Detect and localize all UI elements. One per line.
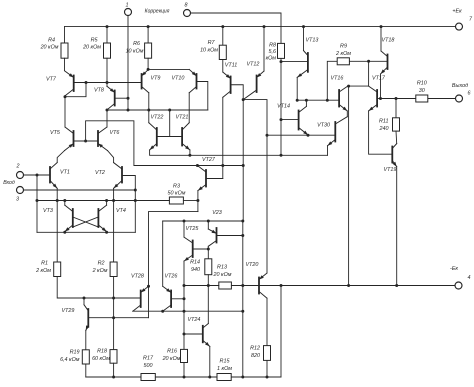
wire VT3-VT4 cross coupling b xyxy=(73,217,99,227)
junction mirror base tap xyxy=(168,109,171,112)
resistor R19 6.4k xyxy=(60,350,89,365)
wire VT25 emitter chain xyxy=(183,261,185,349)
transistor VT3 xyxy=(43,205,73,231)
wire VT10 collector down xyxy=(188,93,190,123)
svg-text:2 кОм: 2 кОм xyxy=(335,51,351,57)
wire VT2 base link xyxy=(122,176,135,233)
svg-text:VT13: VT13 xyxy=(306,38,319,44)
wire VT8 base to compensation xyxy=(115,97,128,99)
junction VT14 collector on VT16 base line xyxy=(305,99,308,102)
terminal 7 (+Eк supply) xyxy=(452,9,473,31)
wire R13 line / -Eк rail xyxy=(184,285,219,287)
svg-text:VT20: VT20 xyxy=(246,262,259,268)
wire VT12 collector branch down xyxy=(242,100,244,221)
wire R9 leads xyxy=(327,61,337,100)
wire pulldown to -Eк xyxy=(348,86,350,285)
svg-text:2: 2 xyxy=(16,164,20,170)
transistor VT16 xyxy=(331,76,348,111)
transistor VT14 xyxy=(277,104,308,135)
svg-text:1 кОм: 1 кОм xyxy=(217,366,232,372)
svg-text:VT2: VT2 xyxy=(95,170,105,176)
terminal 4 (-Eк supply) xyxy=(450,266,470,289)
transistor VT24 xyxy=(188,317,210,346)
svg-text:R12: R12 xyxy=(250,346,260,352)
wire bottom rail xyxy=(86,376,141,378)
junction terminal1 line end xyxy=(127,109,130,112)
svg-text:10 кОм: 10 кОм xyxy=(200,48,218,54)
junction VT20 base / rail corner xyxy=(280,284,283,287)
svg-text:VT30: VT30 xyxy=(317,123,330,129)
wire VT29 collector up xyxy=(83,298,85,305)
transistor VT7 (pnp, diode-connected) xyxy=(46,71,74,96)
svg-text:VT18: VT18 xyxy=(382,38,395,44)
junction VT3 collector xyxy=(63,199,66,202)
junction R14 top node xyxy=(207,248,210,251)
wire +Eк rail xyxy=(65,26,456,28)
wire terminal1 to compensation node xyxy=(127,16,129,111)
junction VT27 collector xyxy=(196,164,199,167)
resistor R1 2k xyxy=(35,261,61,277)
wire VT7 base-collector tie xyxy=(65,83,86,97)
wire R19 to bottom rail xyxy=(85,364,87,377)
svg-text:VT19: VT19 xyxy=(384,167,397,173)
wire input2 branch to quad xyxy=(36,175,38,232)
svg-text:R9: R9 xyxy=(340,44,347,50)
junction VT18 collector on rail xyxy=(380,25,383,28)
resistor R14 940 xyxy=(190,259,212,275)
wire VT11 collector down to VT27 base xyxy=(222,97,224,178)
svg-text:5,6: 5,6 xyxy=(269,49,277,55)
wire V23 bias line xyxy=(163,220,243,222)
svg-text:240: 240 xyxy=(379,126,389,132)
svg-text:R7: R7 xyxy=(208,40,216,46)
transistor VT19 xyxy=(384,144,397,173)
terminal 1 (Коррекция / correction pin) xyxy=(125,3,170,16)
wire R11 to VT19 collector xyxy=(395,131,398,144)
junction VT13 base on R8 line xyxy=(280,60,283,63)
wire VT16 base line xyxy=(297,99,339,101)
svg-text:940: 940 xyxy=(191,267,200,273)
wire VT18 emitter to output line xyxy=(380,74,382,99)
resistor R9 2k xyxy=(335,44,351,65)
wire R16 to rail xyxy=(183,363,185,378)
svg-text:R16: R16 xyxy=(167,349,177,355)
junction VT1 emitter / quad frame xyxy=(56,199,59,202)
svg-text:-Eк: -Eк xyxy=(450,266,458,272)
junction VT4 emitter xyxy=(105,231,108,234)
junction VT6 collector / compensation line xyxy=(106,109,109,112)
svg-text:3: 3 xyxy=(16,197,19,203)
svg-text:R13: R13 xyxy=(217,265,227,271)
junction VT9 collector / compensation xyxy=(147,109,150,112)
junction quad frame right xyxy=(134,199,137,202)
wire VT13 base to R8 node xyxy=(281,61,308,63)
wire VT30 base line xyxy=(267,134,335,136)
svg-text:VT14: VT14 xyxy=(277,104,290,110)
svg-text:R3: R3 xyxy=(173,184,180,190)
svg-text:VT4: VT4 xyxy=(116,208,126,214)
resistor R6 10k xyxy=(126,25,152,69)
junction VT4 collector xyxy=(105,199,108,202)
transistor VT27 xyxy=(197,157,216,191)
wire quad collector line to R3 to VT27 emitter xyxy=(37,200,169,202)
junction R6 feed xyxy=(147,68,150,71)
wire R14 to R13 line xyxy=(207,275,209,286)
svg-text:R4: R4 xyxy=(48,38,55,44)
wire VT7/VT9 base line xyxy=(74,82,142,84)
junction VT14 base on R8 line xyxy=(280,118,283,121)
wire VT17 base to output xyxy=(377,98,380,100)
junction V23 emitter xyxy=(207,220,210,223)
svg-text:30: 30 xyxy=(419,88,425,94)
wire VT21/VT22 base link xyxy=(157,136,182,138)
svg-text:60 кОм: 60 кОм xyxy=(92,356,110,362)
junction VT13 emitter on VT16 base line xyxy=(296,99,299,102)
svg-text:2 кОм: 2 кОм xyxy=(35,268,51,274)
wire VT26 emitter feed xyxy=(162,221,164,286)
transistor VT11 (pnp) xyxy=(223,63,237,98)
wire VT27 emitter to VT28 xyxy=(149,212,198,318)
junction input2 branch xyxy=(36,174,39,177)
junction R16 on rail xyxy=(183,376,186,379)
wire VT4 collector stub xyxy=(106,201,108,206)
junction VT24 emitter on rail xyxy=(208,376,211,379)
transistor VT8 (pnp) xyxy=(94,86,115,110)
junction VT5-VT6 base xyxy=(84,140,87,143)
terminal 6 (Выход / output) xyxy=(452,83,471,102)
wire VT5 collector up xyxy=(64,97,66,127)
svg-text:10 кОм: 10 кОм xyxy=(126,49,144,55)
transistor VT10 (pnp) xyxy=(172,69,197,92)
svg-text:кОм: кОм xyxy=(266,56,277,62)
transistor VT21 xyxy=(176,115,190,150)
wire VT19 emitter to -Eк rail xyxy=(396,167,398,286)
junction V23 base tee xyxy=(241,234,244,237)
junction VT26 collector xyxy=(161,310,164,313)
svg-text:VT25: VT25 xyxy=(186,226,200,232)
transistor VT25 xyxy=(184,226,199,261)
wire VT6 collector up xyxy=(106,110,108,127)
svg-text:VT3: VT3 xyxy=(43,208,53,214)
wire VT24 collector chain xyxy=(207,286,209,324)
resistor R17 500 xyxy=(141,356,155,381)
junction VT19 emitter on rail xyxy=(395,284,398,287)
wire VT9/VT10 emitter top line xyxy=(149,68,190,70)
junction VT18 emitter on output xyxy=(379,97,382,100)
wire V23 base tie xyxy=(217,221,243,236)
wire VT24 base tie xyxy=(184,333,203,335)
svg-text:VT22: VT22 xyxy=(151,115,164,121)
wire rail to VT12 emitter xyxy=(263,27,265,72)
junction V23 column / collector line xyxy=(241,310,244,313)
svg-text:R10: R10 xyxy=(417,81,427,87)
wire VT2 emitter down to R2 xyxy=(113,188,115,262)
wire VT29 base line xyxy=(88,317,148,319)
wire VT25 collector up xyxy=(183,221,185,237)
svg-text:R18: R18 xyxy=(97,349,107,355)
transistor V23 (pnp diode-connected) xyxy=(208,210,221,246)
wire R11 top lead xyxy=(395,99,397,118)
terminal 8 (correction pin 8) xyxy=(184,3,191,17)
resistor R3 50k xyxy=(168,184,186,205)
resistor R16 20k xyxy=(162,349,188,363)
svg-text:VT16: VT16 xyxy=(331,76,344,82)
svg-text:Вход: Вход xyxy=(3,180,15,186)
wire input3 to VT2 base node xyxy=(24,189,136,191)
resistor R13 20k xyxy=(213,265,232,290)
wire VT28/VT26 collector line xyxy=(133,310,243,312)
wire VT16 emitter to VT30 collector xyxy=(346,111,348,117)
svg-text:R15: R15 xyxy=(220,359,231,365)
svg-text:R2: R2 xyxy=(98,261,105,267)
wire base tap to second-stage node xyxy=(86,121,244,166)
svg-text:VT12: VT12 xyxy=(247,62,260,68)
transistor VT17 xyxy=(369,76,386,111)
wire V23 base column to bottom rail xyxy=(242,236,244,378)
svg-text:VT28: VT28 xyxy=(131,274,144,280)
transistor VT12 (pnp) xyxy=(243,62,264,100)
svg-text:VT27: VT27 xyxy=(202,157,216,163)
junction R11 top on output xyxy=(395,97,398,100)
wire input2 to VT1 base xyxy=(24,174,51,176)
junction R8 column on emitter line xyxy=(280,154,283,157)
svg-text:R11: R11 xyxy=(379,119,389,125)
wire R1 bottom to base line xyxy=(57,277,141,299)
wire VT27 emitter down xyxy=(197,191,199,212)
junction VT12 collector node xyxy=(242,98,245,101)
junction V23 line corner xyxy=(241,220,244,223)
svg-text:4: 4 xyxy=(468,275,471,281)
svg-text:V23: V23 xyxy=(212,210,222,216)
wire VT8 collector stub xyxy=(106,109,108,111)
resistor R18 60k xyxy=(92,349,117,364)
wire R18 to bottom rail xyxy=(113,363,115,377)
svg-text:VT6: VT6 xyxy=(110,130,120,136)
svg-text:500: 500 xyxy=(144,363,153,369)
wire compensation node line xyxy=(107,109,208,111)
wire VT13 emitter down xyxy=(296,77,298,100)
junction VT2 emitter / quad frame xyxy=(112,199,115,202)
wire VT24 emitter to rail xyxy=(209,346,211,377)
junction R14 bottom xyxy=(207,284,210,287)
transistor VT5 (pnp) xyxy=(50,127,73,151)
wire quad bottom line xyxy=(37,231,135,233)
wire VT5 emitter to VT1 collector xyxy=(57,151,64,163)
resistor R11 240 xyxy=(379,118,400,132)
svg-text:R1: R1 xyxy=(41,261,48,267)
svg-text:VT5: VT5 xyxy=(50,130,61,136)
wire VT13 collector to rail xyxy=(303,27,305,51)
wire VT7 collector junction xyxy=(64,95,67,98)
wire VT16/VT17 collector link xyxy=(348,85,369,87)
junction collector line end xyxy=(183,310,186,313)
wire V23 collector to R14 xyxy=(207,246,209,258)
junction quad frame left xyxy=(36,199,39,202)
svg-text:8: 8 xyxy=(185,3,188,9)
junction VT25 emitter / R13 line xyxy=(183,284,186,287)
svg-text:VT10: VT10 xyxy=(172,76,185,82)
svg-text:R17: R17 xyxy=(143,356,154,362)
svg-text:20 кОм: 20 кОм xyxy=(82,45,101,51)
junction VT14 emitter on VT30 base line xyxy=(307,134,310,137)
transistor VT22 xyxy=(149,115,164,150)
svg-text:VT24: VT24 xyxy=(188,317,201,323)
wire output line xyxy=(381,98,416,100)
junction VT25 emitter / VT24 base xyxy=(183,333,186,336)
resistor R15 1k xyxy=(217,359,232,381)
transistor VT30 xyxy=(317,117,347,146)
junction VT25 collector on V23 line xyxy=(183,220,186,223)
svg-text:20 кОм: 20 кОм xyxy=(213,272,232,278)
wire VT26 base tie xyxy=(171,298,184,300)
wire VT1 emitter down to R1 xyxy=(56,188,58,262)
wire VT20 base to -Eк xyxy=(259,285,281,287)
svg-text:50 кОм: 50 кОм xyxy=(168,191,186,197)
wire VT22 emitter corner xyxy=(150,150,328,155)
junction VT29 collector tap xyxy=(83,297,86,300)
wire VT25 base to R14 node xyxy=(193,248,209,250)
wire VT11 base tie xyxy=(231,85,244,100)
wire VT18 base lead xyxy=(369,60,388,62)
wire VT6 emitter to VT2 collector xyxy=(108,151,114,163)
svg-text:VT7: VT7 xyxy=(46,77,57,83)
wire R2 bottom down xyxy=(113,277,115,350)
transistor VT20 (pnp) xyxy=(246,262,267,298)
junction VT27 emitter / R3 xyxy=(196,199,199,202)
wire VT10 base hook xyxy=(197,82,208,111)
resistor R7 10k xyxy=(200,25,226,72)
junction VT8 base on terminal1 line xyxy=(127,97,130,100)
resistor R2 2k xyxy=(92,261,118,277)
wire VT29 emitter to R19 xyxy=(85,331,87,350)
transistor VT13 xyxy=(297,38,318,78)
wire VT3 collector stub xyxy=(64,201,66,206)
svg-text:VT29: VT29 xyxy=(62,308,75,314)
junction R9 left on VT16 base line xyxy=(326,99,329,102)
junction VT28 emitter tap xyxy=(147,285,150,288)
svg-text:VT21: VT21 xyxy=(176,115,189,121)
svg-text:Коррекция: Коррекция xyxy=(145,9,170,15)
svg-text:6: 6 xyxy=(468,91,471,97)
svg-text:1: 1 xyxy=(126,3,129,9)
svg-text:R19: R19 xyxy=(70,350,80,356)
resistor R10 30 xyxy=(416,81,428,103)
svg-text:VT9: VT9 xyxy=(151,76,161,82)
svg-text:VT17: VT17 xyxy=(372,76,386,82)
transistor VT2 xyxy=(95,163,122,189)
junction VT2 base / input3 xyxy=(134,189,137,192)
svg-text:R14: R14 xyxy=(190,260,200,266)
wire VT14 collector up xyxy=(305,100,307,106)
wire VT12 collector branch right xyxy=(243,100,267,273)
svg-text:20 кОм: 20 кОм xyxy=(162,356,181,362)
junction VT20 feed / VT30 base line xyxy=(266,134,269,137)
wire VT7 collector stub xyxy=(64,95,66,98)
svg-text:R5: R5 xyxy=(91,38,99,44)
svg-text:20 кОм: 20 кОм xyxy=(40,45,59,51)
wire V23 emitter feed xyxy=(207,221,209,229)
wire R12 to rail xyxy=(266,360,268,377)
wire VT17 emitter to VT19 base xyxy=(369,111,393,154)
junction VT18 base / R9 xyxy=(367,60,370,63)
resistor R5 20k xyxy=(82,25,110,86)
wire VT18 collector to rail xyxy=(380,27,382,51)
junction R2 / base line xyxy=(112,297,115,300)
junction V23 column on bottom rail xyxy=(241,376,244,379)
transistor VT28 (pnp) xyxy=(131,274,148,312)
svg-text:VT26: VT26 xyxy=(165,274,178,280)
resistor R4 20k xyxy=(40,27,68,71)
wire VT3-VT4 cross coupling a xyxy=(73,217,99,227)
junction VT13 collector on rail xyxy=(302,25,305,28)
resistor R8 5.6k xyxy=(266,43,285,156)
transistor VT4 xyxy=(98,205,126,231)
wire VT30 emitter down xyxy=(327,146,329,156)
transistor VT6 (pnp) xyxy=(98,127,119,151)
junction VT12 emitter on rail xyxy=(263,25,266,28)
junction R2 / VT29 base line xyxy=(112,316,115,319)
wire VT9 collector down xyxy=(148,93,150,123)
svg-text:820: 820 xyxy=(251,353,260,359)
junction R18 on rail xyxy=(112,376,115,379)
wire VT20 collector to R12 xyxy=(266,298,268,345)
svg-text:R6: R6 xyxy=(133,41,140,47)
wire terminal8 to R8 xyxy=(191,13,282,43)
junction R12 on rail xyxy=(266,376,269,379)
transistor VT18 xyxy=(381,38,395,75)
junction R5/VT8 emitter on bias line xyxy=(106,81,109,84)
svg-text:VT11: VT11 xyxy=(225,63,237,69)
wire VT14 base to R8 node xyxy=(281,119,299,121)
junction VT3 emitter xyxy=(63,231,66,234)
transistor VT9 (pnp) xyxy=(142,69,161,92)
junction VT26 base xyxy=(183,297,186,300)
terminal 2 (non-inverting input) xyxy=(3,164,23,187)
svg-text:Выход: Выход xyxy=(452,83,468,89)
junction output-stage pulldown xyxy=(347,85,350,88)
svg-text:VT8: VT8 xyxy=(94,88,104,94)
transistor VT29 xyxy=(62,305,90,331)
junction VT21 emitter xyxy=(188,154,191,157)
svg-text:+Eк: +Eк xyxy=(452,9,462,15)
terminal 3 (inverting input) xyxy=(16,187,24,203)
wire VT5/VT6 common base xyxy=(74,140,99,142)
junction pulldown on -Eк rail xyxy=(347,284,350,287)
resistor R12 820 xyxy=(250,346,270,361)
junction VT12 branch / mirror line xyxy=(242,164,245,167)
transistor VT1 xyxy=(50,163,70,189)
junction V23 column / -Eк line xyxy=(241,284,244,287)
junction VT11 collector / mirror line xyxy=(221,164,224,167)
svg-text:2 кОм: 2 кОм xyxy=(92,268,108,274)
wire VT27 base tie xyxy=(206,178,223,180)
wire VT21 emitter drop xyxy=(189,150,191,155)
svg-text:VT1: VT1 xyxy=(60,170,70,176)
wire mirror base tap up xyxy=(169,110,171,137)
transistor VT26 (pnp) xyxy=(163,274,178,312)
svg-text:6,4 кОм: 6,4 кОм xyxy=(60,357,80,363)
wire VT18 base node xyxy=(368,61,370,86)
junction VT7 base tie xyxy=(85,81,88,84)
svg-text:R8: R8 xyxy=(269,43,276,49)
